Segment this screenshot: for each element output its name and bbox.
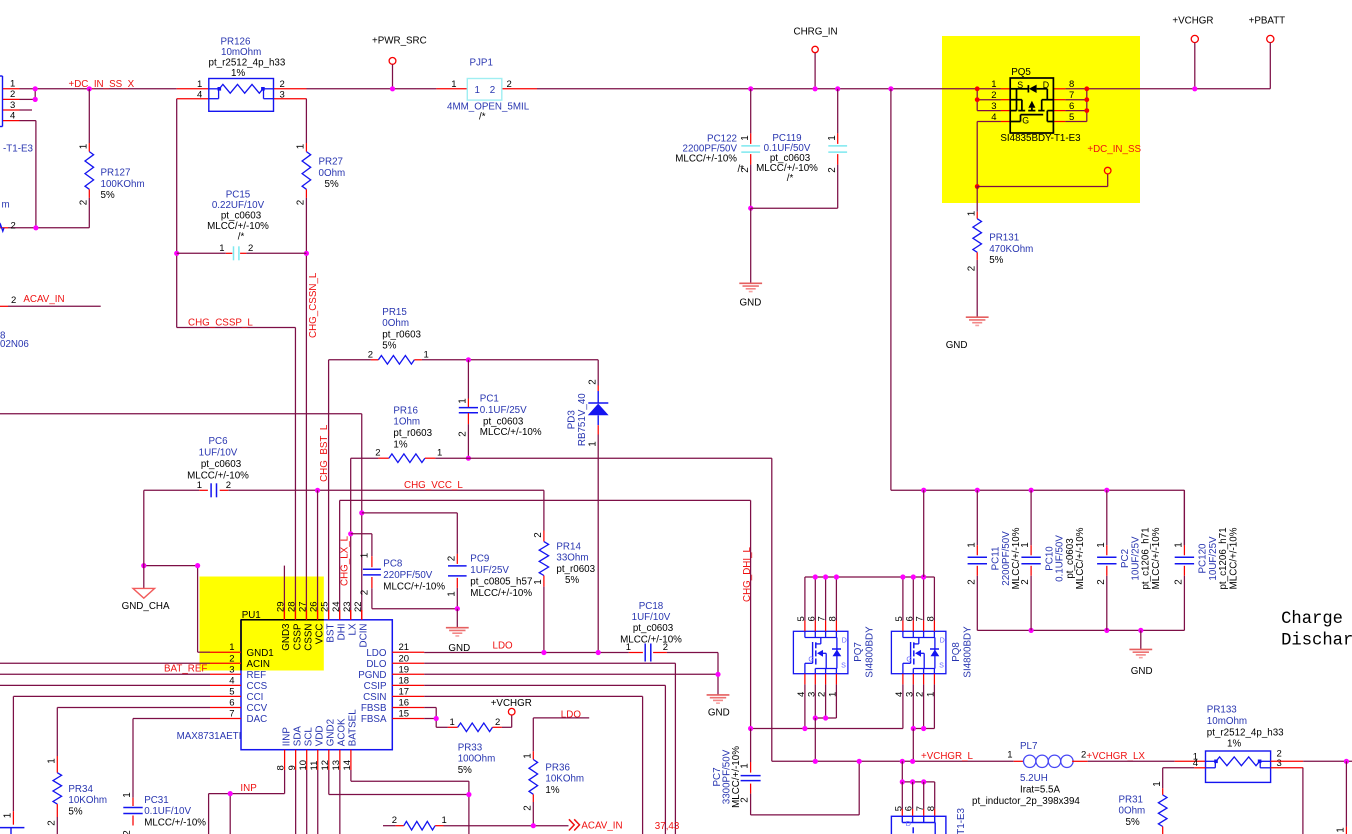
svg-text:5: 5 xyxy=(229,686,234,697)
svg-text:6: 6 xyxy=(904,806,915,811)
wire CCI to left capacitor xyxy=(13,695,210,697)
svg-text:CSSP: CSSP xyxy=(292,623,303,650)
svg-text:4: 4 xyxy=(991,112,996,123)
resistor stub at left edge xyxy=(0,224,4,231)
wire CHG_DHI_L net xyxy=(340,499,751,501)
capacitor PC120 xyxy=(1183,490,1185,545)
wire FBSA xyxy=(424,718,436,720)
svg-text:2: 2 xyxy=(11,221,16,232)
resistor PR36 xyxy=(532,718,534,751)
svg-text:DAC: DAC xyxy=(247,714,268,725)
svg-text:PGND: PGND xyxy=(358,670,386,681)
svg-text:PR27: PR27 xyxy=(319,157,344,168)
svg-text:CSSN: CSSN xyxy=(303,624,314,651)
svg-text:pt_inductor_2p_398x394: pt_inductor_2p_398x394 xyxy=(972,796,1080,807)
svg-text:2: 2 xyxy=(11,295,16,306)
wire DCIN to PC9 xyxy=(362,512,458,514)
svg-text:G: G xyxy=(1022,115,1029,125)
svg-text:100KOhm: 100KOhm xyxy=(101,179,145,190)
svg-text:1: 1 xyxy=(442,815,447,826)
svg-text:1: 1 xyxy=(46,758,57,763)
svg-text:2: 2 xyxy=(587,379,598,384)
svg-text:1: 1 xyxy=(10,79,15,90)
svg-text:S: S xyxy=(841,661,846,670)
resistor PR33 xyxy=(436,726,448,728)
svg-text:1: 1 xyxy=(1020,542,1031,547)
svg-text:12: 12 xyxy=(320,760,331,771)
svg-text:2: 2 xyxy=(495,717,500,728)
svg-text:1: 1 xyxy=(533,579,544,584)
svg-text:MLCC/+/-10%: MLCC/+/-10% xyxy=(1151,527,1162,589)
transistor PQ8 xyxy=(891,631,946,673)
svg-text:0.22UF/10V: 0.22UF/10V xyxy=(212,200,265,211)
capacitor PC18 xyxy=(644,644,646,662)
svg-text:1UF/25V: 1UF/25V xyxy=(470,565,509,576)
junction + ground GND (PC8/PC9) xyxy=(455,606,460,611)
wire drain tie to input rail xyxy=(923,490,925,577)
svg-text:+VCHGR: +VCHGR xyxy=(1172,16,1213,27)
svg-text:SDA: SDA xyxy=(292,726,303,747)
svg-text:1: 1 xyxy=(827,135,838,140)
svg-text:D: D xyxy=(842,636,847,645)
wire down from +PBATT node xyxy=(1345,761,1347,827)
jumper PJP1 xyxy=(436,88,467,90)
svg-text:PC9: PC9 xyxy=(470,554,489,565)
svg-text:4: 4 xyxy=(10,110,15,121)
svg-text:pt_r0603: pt_r0603 xyxy=(556,564,595,575)
wire CHG_VCC_L net xyxy=(144,489,200,491)
junction (red) xyxy=(975,86,980,91)
svg-text:5%: 5% xyxy=(565,575,579,586)
net flag ACAV_IN xyxy=(569,819,580,830)
svg-text:470KOhm: 470KOhm xyxy=(989,244,1033,255)
capacitor PC8 xyxy=(371,534,373,556)
net ACAV_IN (left edge) xyxy=(8,305,101,307)
svg-text:+PWR_SRC: +PWR_SRC xyxy=(372,36,427,47)
svg-text:2: 2 xyxy=(368,349,373,360)
wire DCIN net from left edge xyxy=(0,413,362,415)
svg-text:2: 2 xyxy=(280,79,285,90)
junction (red) xyxy=(1084,86,1089,91)
svg-text:2: 2 xyxy=(375,448,380,459)
svg-text:D: D xyxy=(906,819,911,828)
svg-text:PR34: PR34 xyxy=(68,784,93,795)
svg-text:GND3: GND3 xyxy=(281,623,292,651)
svg-text:2: 2 xyxy=(446,556,457,561)
wire SDA SCL VDD down xyxy=(295,770,297,834)
svg-text:CHG_BST_L: CHG_BST_L xyxy=(319,424,330,482)
resistor PR34 xyxy=(56,708,58,757)
svg-text:Discharge: Discharge xyxy=(1281,631,1352,650)
svg-text:PU1: PU1 xyxy=(242,610,261,621)
svg-text:1: 1 xyxy=(522,753,533,758)
junction VCC pin xyxy=(315,488,320,493)
svg-text:220PF/50V: 220PF/50V xyxy=(383,570,432,581)
svg-text:PR126: PR126 xyxy=(221,36,252,47)
svg-text:SI4800BDY: SI4800BDY xyxy=(963,626,974,678)
svg-text:MLCC/+/-10%: MLCC/+/-10% xyxy=(207,221,269,232)
svg-text:1: 1 xyxy=(475,85,480,96)
svg-text:5%: 5% xyxy=(458,765,472,776)
svg-text:3: 3 xyxy=(991,101,996,112)
svg-text:SI4800BDY: SI4800BDY xyxy=(865,626,876,678)
resistor PR14 xyxy=(543,490,545,530)
svg-text:CHG_CSSP_L: CHG_CSSP_L xyxy=(188,317,253,328)
wire PR133 pin3 down xyxy=(1271,767,1304,769)
svg-text:BST: BST xyxy=(325,623,336,642)
svg-text:1: 1 xyxy=(966,211,977,216)
capacitor PC7 xyxy=(750,729,752,763)
wire INP net xyxy=(208,794,210,834)
svg-text:MLCC/+/-10%: MLCC/+/-10% xyxy=(187,470,249,481)
svg-text:PQ8: PQ8 xyxy=(951,642,962,662)
wire drain row PQ7/PQ8 xyxy=(805,576,935,578)
svg-text:2: 2 xyxy=(296,200,307,205)
capacitor PC15 xyxy=(176,99,178,328)
wire bottom tie y=227.8 xyxy=(8,227,89,229)
svg-text:GND1: GND1 xyxy=(247,648,274,659)
svg-text:5%: 5% xyxy=(1126,817,1140,828)
svg-text:VCC: VCC xyxy=(314,624,325,645)
svg-text:2: 2 xyxy=(458,431,469,436)
svg-text:1: 1 xyxy=(424,349,429,360)
svg-text:SCL: SCL xyxy=(304,727,315,747)
svg-text:DLO: DLO xyxy=(366,659,387,670)
svg-text:GND: GND xyxy=(946,340,968,351)
svg-text:PR131: PR131 xyxy=(989,233,1019,244)
capacitor PC2 xyxy=(1106,490,1108,545)
svg-text:0Ohm: 0Ohm xyxy=(382,318,409,329)
svg-text:SI4835BDY-T1-E3: SI4835BDY-T1-E3 xyxy=(956,807,967,834)
svg-text:REF: REF xyxy=(247,670,267,681)
svg-text:MLCC/+/-10%: MLCC/+/-10% xyxy=(620,634,682,645)
svg-text:BATSEL: BATSEL xyxy=(348,709,359,746)
svg-text:PJP1: PJP1 xyxy=(470,57,493,68)
svg-text:PC8: PC8 xyxy=(383,558,403,569)
svg-text:0.1UF/10V: 0.1UF/10V xyxy=(144,806,191,817)
svg-text:ACAV_IN: ACAV_IN xyxy=(581,821,622,832)
svg-text:2: 2 xyxy=(490,85,495,96)
svg-text:1: 1 xyxy=(3,813,14,818)
svg-text:pt_c0603: pt_c0603 xyxy=(201,459,242,470)
svg-text:GND2: GND2 xyxy=(326,719,337,746)
svg-text:6: 6 xyxy=(229,698,234,709)
svg-text:2: 2 xyxy=(229,653,234,664)
inductor PL7 xyxy=(1014,760,1024,762)
svg-text:CHG_CSSN_L: CHG_CSSN_L xyxy=(308,272,319,338)
svg-text:37,43: 37,43 xyxy=(655,821,680,832)
resistor PR16 xyxy=(466,456,471,461)
svg-text:pt_r0603: pt_r0603 xyxy=(393,428,432,439)
wire GND2 jog xyxy=(328,770,330,795)
svg-text:1: 1 xyxy=(78,144,89,149)
svg-text:1Ohm: 1Ohm xyxy=(393,417,420,428)
svg-text:5%: 5% xyxy=(101,190,115,201)
ground GND (PC122) xyxy=(750,208,752,283)
capacitor PC11 xyxy=(976,490,978,545)
svg-text:MLCC/+/-10%: MLCC/+/-10% xyxy=(383,581,445,592)
wire ACIN to left edge xyxy=(0,662,210,664)
svg-text:1: 1 xyxy=(197,79,202,90)
transistor PQ7 xyxy=(793,631,848,673)
wire CHG_CSSP_L jog xyxy=(177,327,296,329)
svg-text:10KOhm: 10KOhm xyxy=(545,774,584,785)
svg-text:2: 2 xyxy=(46,820,57,825)
svg-text:2: 2 xyxy=(226,480,231,491)
svg-text:pt_c0603: pt_c0603 xyxy=(483,416,524,427)
resistor PR127 xyxy=(87,86,92,91)
wire DLO down xyxy=(424,662,675,664)
svg-text:18: 18 xyxy=(399,675,410,686)
svg-text:15: 15 xyxy=(399,709,410,720)
svg-text:1%: 1% xyxy=(1227,739,1241,750)
svg-text:2: 2 xyxy=(1096,579,1107,584)
wire pin4 down xyxy=(20,120,36,122)
svg-text:PR15: PR15 xyxy=(382,307,407,318)
svg-text:MLCC/+/-10%: MLCC/+/-10% xyxy=(1229,527,1240,589)
svg-text:PR36: PR36 xyxy=(545,762,570,773)
svg-text:LDO: LDO xyxy=(493,640,514,651)
svg-text:/*: /* xyxy=(479,111,486,122)
svg-text:GND: GND xyxy=(708,707,730,718)
svg-text:2: 2 xyxy=(78,200,89,205)
svg-text:2: 2 xyxy=(1174,579,1185,584)
wire pin2 to node xyxy=(20,98,36,100)
svg-text:2: 2 xyxy=(507,79,512,90)
svg-text:2: 2 xyxy=(966,266,977,271)
svg-text:1: 1 xyxy=(1096,542,1107,547)
svg-text:GND: GND xyxy=(1131,666,1153,677)
wire PGND to GND xyxy=(424,673,718,675)
svg-text:+VCHGR: +VCHGR xyxy=(491,698,532,709)
svg-text:10: 10 xyxy=(298,760,309,771)
svg-text:CCS: CCS xyxy=(247,681,268,692)
svg-text:4: 4 xyxy=(229,675,234,686)
resistor PR31 xyxy=(1162,768,1164,789)
svg-text:7: 7 xyxy=(1069,90,1074,101)
junction xyxy=(33,86,38,91)
svg-text:S: S xyxy=(939,661,944,670)
svg-text:PQ5: PQ5 xyxy=(1011,67,1031,78)
resistor PR133 xyxy=(1206,751,1271,782)
svg-text:23: 23 xyxy=(342,601,353,612)
junction xyxy=(33,225,38,230)
svg-text:CSIP: CSIP xyxy=(364,681,387,692)
svg-text:+PBATT: +PBATT xyxy=(1249,16,1286,27)
capacitor PC9 xyxy=(456,554,458,564)
svg-text:2: 2 xyxy=(122,830,133,834)
svg-text:BAT_REF: BAT_REF xyxy=(164,663,207,674)
svg-text:5%: 5% xyxy=(382,341,396,352)
terminal +VCHGR (PR33) xyxy=(511,715,513,727)
svg-text:CHG_LX_L: CHG_LX_L xyxy=(339,535,350,586)
wire DAC to PC31 xyxy=(133,718,210,720)
wire CSIN down xyxy=(424,695,642,697)
svg-text:2: 2 xyxy=(10,89,15,100)
svg-text:MLCC/+/-10%: MLCC/+/-10% xyxy=(731,746,742,808)
wire LX to PC8 xyxy=(351,533,372,535)
svg-text:2: 2 xyxy=(392,815,397,826)
svg-text:1: 1 xyxy=(1174,542,1185,547)
svg-text:1: 1 xyxy=(1152,781,1163,786)
svg-text:pt_c0603: pt_c0603 xyxy=(633,623,674,634)
svg-text:1: 1 xyxy=(458,398,469,403)
svg-text:1: 1 xyxy=(450,717,455,728)
svg-text:ACAV_IN: ACAV_IN xyxy=(23,294,64,305)
wire gate line CHG_DHI_L xyxy=(751,728,903,730)
svg-text:1: 1 xyxy=(197,480,202,491)
svg-text:2: 2 xyxy=(360,590,371,595)
svg-text:9: 9 xyxy=(287,765,298,770)
svg-text:5: 5 xyxy=(1069,112,1074,123)
svg-text:DHI: DHI xyxy=(336,624,347,641)
svg-text:4MM_OPEN_5MIL: 4MM_OPEN_5MIL xyxy=(447,102,530,113)
svg-text:1: 1 xyxy=(1007,750,1012,761)
svg-text:PC1: PC1 xyxy=(480,393,499,404)
wire LDO stub to PR36 xyxy=(533,717,589,719)
svg-text:4: 4 xyxy=(197,89,202,100)
svg-text:CSIN: CSIN xyxy=(363,692,386,703)
svg-text:5.2UH: 5.2UH xyxy=(1020,773,1048,784)
wire +DC_IN_SS_X main rail xyxy=(20,88,177,90)
svg-text:0Ohm: 0Ohm xyxy=(319,168,346,179)
wire CHG_CSSN_L vertical xyxy=(305,198,307,610)
svg-text:1%: 1% xyxy=(393,439,407,450)
svg-text:2: 2 xyxy=(248,243,253,254)
wire PR133 pin4 to PR31 xyxy=(1194,767,1205,769)
svg-text:pt_r2512_4p_h33: pt_r2512_4p_h33 xyxy=(209,57,286,68)
svg-text:1: 1 xyxy=(587,441,598,446)
wire PC8/PC9 ground rail xyxy=(372,608,457,610)
svg-text:FBSA: FBSA xyxy=(361,714,387,725)
svg-text:CHG_DHI_L: CHG_DHI_L xyxy=(742,546,753,602)
capacitor PC119 xyxy=(835,86,840,91)
transistor PQ5 xyxy=(976,89,978,111)
svg-text:2: 2 xyxy=(991,90,996,101)
svg-text:GND_CHA: GND_CHA xyxy=(122,601,170,612)
svg-text:16: 16 xyxy=(399,698,410,709)
svg-text:PC31: PC31 xyxy=(144,795,169,806)
svg-text:+DC_IN_SS_X: +DC_IN_SS_X xyxy=(69,79,135,90)
svg-text:RB751V_40: RB751V_40 xyxy=(577,393,588,446)
svg-text:5%: 5% xyxy=(989,255,1003,266)
svg-text:PC15: PC15 xyxy=(226,189,251,200)
svg-text:Charge: Charge xyxy=(1281,610,1343,629)
svg-text:7: 7 xyxy=(229,709,234,720)
wire IINP pin xyxy=(284,770,286,794)
svg-text:pt_r2512_4p_h33: pt_r2512_4p_h33 xyxy=(1207,727,1284,738)
terminal +DC_IN_SS xyxy=(1104,167,1111,174)
svg-text:CHRG_IN: CHRG_IN xyxy=(794,27,838,38)
wire ACAV_IN net (bottom) xyxy=(383,825,396,827)
svg-text:1: 1 xyxy=(991,79,996,90)
svg-text:INP: INP xyxy=(240,783,257,794)
svg-text:1: 1 xyxy=(219,243,224,254)
svg-text:LX: LX xyxy=(348,623,359,635)
svg-text:3: 3 xyxy=(10,100,15,111)
wire capacitor bank bottom rail xyxy=(977,629,1184,631)
capacitor PC10 xyxy=(1030,490,1032,545)
wire FBSB jog xyxy=(424,707,436,709)
svg-text:PR33: PR33 xyxy=(458,742,483,753)
resistor (bottom, labels cut) xyxy=(404,821,435,830)
resistor PR131 xyxy=(976,187,978,212)
svg-text:LDO: LDO xyxy=(366,648,387,659)
highlight box around PU1 top-left pins xyxy=(200,577,324,671)
wire BATSEL jog xyxy=(350,770,352,781)
capacitor at left edge (cut) xyxy=(12,811,14,825)
resistor PR126 xyxy=(177,88,209,90)
wire LDO rail xyxy=(424,652,629,654)
svg-text:CCV: CCV xyxy=(247,703,268,714)
svg-text:VDD: VDD xyxy=(315,726,326,747)
transistor PQ4 (cut at left edge) xyxy=(2,76,4,127)
svg-text:/*: /* xyxy=(737,164,744,175)
svg-text:1: 1 xyxy=(966,542,977,547)
junction DCIN branch xyxy=(359,510,364,515)
svg-text:PQ7: PQ7 xyxy=(853,642,864,662)
wire PQ8 gate down xyxy=(902,684,904,728)
svg-text:10mOhm: 10mOhm xyxy=(221,47,261,58)
wire input rail to capacitor bank xyxy=(891,489,1185,491)
svg-text:1: 1 xyxy=(229,642,234,653)
svg-text:1%: 1% xyxy=(545,785,559,796)
svg-text:1UF/10V: 1UF/10V xyxy=(632,612,671,623)
svg-text:FBSB: FBSB xyxy=(361,703,387,714)
wire CCS to left edge xyxy=(0,684,210,686)
svg-text:CHG_VCC_L: CHG_VCC_L xyxy=(404,480,463,491)
ground GND (PGND) xyxy=(707,694,730,696)
svg-text:/*: /* xyxy=(238,231,245,242)
svg-text:21: 21 xyxy=(399,642,410,653)
svg-text:+VCHGR_LX: +VCHGR_LX xyxy=(1086,751,1145,762)
svg-text:ACOK: ACOK xyxy=(337,718,348,746)
wire vertical to capacitor bank xyxy=(888,86,893,91)
transistor PQ9 (cut at bottom) xyxy=(902,781,934,783)
svg-text:5%: 5% xyxy=(325,179,339,190)
svg-text:1%: 1% xyxy=(231,68,245,79)
wire VCC vertical xyxy=(317,490,319,610)
wire pin1-pin2 tie xyxy=(34,89,36,100)
wire LX switch node to +VCHGR_L xyxy=(771,458,773,761)
svg-text:PR133: PR133 xyxy=(1207,705,1238,716)
ground GND (capacitor bank) xyxy=(1140,630,1142,649)
svg-text:24: 24 xyxy=(331,601,342,612)
svg-text:17: 17 xyxy=(399,686,410,697)
wire CHG_BST_L vertical xyxy=(328,360,330,610)
svg-text:6: 6 xyxy=(1069,101,1074,112)
svg-text:MLCC/+/-10%: MLCC/+/-10% xyxy=(470,588,532,599)
wire CSIP down xyxy=(424,684,665,686)
svg-text:8: 8 xyxy=(926,806,937,811)
diode PD3 xyxy=(597,360,599,386)
svg-text:IINP: IINP xyxy=(281,727,292,747)
svg-text:+DC_IN_SS: +DC_IN_SS xyxy=(1087,144,1141,155)
svg-text:GND: GND xyxy=(740,298,762,309)
wire to PR133 xyxy=(1088,760,1175,762)
capacitor PC6 xyxy=(199,489,208,491)
wire PQ5 gate to +DC_IN_SS xyxy=(976,122,978,187)
wire PC7 to +VCHGR_L rail xyxy=(751,814,860,816)
svg-text:2: 2 xyxy=(522,805,533,810)
svg-text:33Ohm: 33Ohm xyxy=(556,553,588,564)
svg-text:PR31: PR31 xyxy=(1119,794,1144,805)
svg-text:5%: 5% xyxy=(68,806,82,817)
capacitor PC122 xyxy=(748,86,753,91)
svg-text:1: 1 xyxy=(451,79,456,90)
svg-text:1: 1 xyxy=(446,591,457,596)
junction LX branch xyxy=(348,531,353,536)
